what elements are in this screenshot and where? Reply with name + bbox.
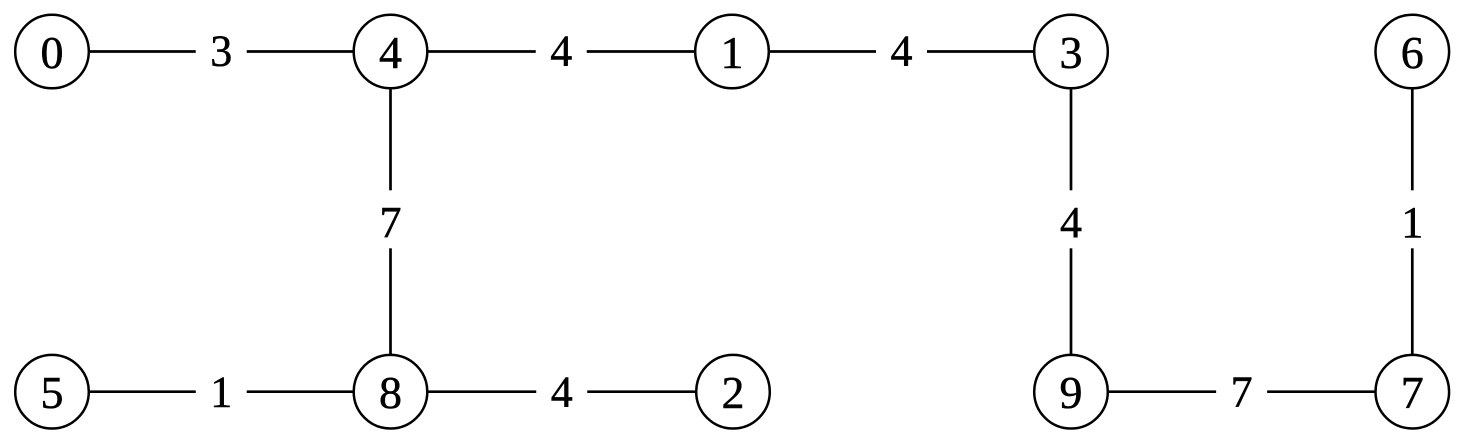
node 7 bbox=[1376, 355, 1450, 429]
svg-text:7: 7 bbox=[1231, 368, 1253, 417]
svg-text:3: 3 bbox=[210, 27, 232, 76]
node 6 bbox=[1376, 15, 1450, 89]
svg-text:3: 3 bbox=[1060, 27, 1083, 78]
svg-text:8: 8 bbox=[379, 367, 402, 418]
edge label 7 (9-7) bbox=[1216, 368, 1267, 417]
svg-text:2: 2 bbox=[722, 367, 745, 418]
wire edge 4-8 bbox=[389, 52, 392, 392]
wire edge 5-8 bbox=[52, 390, 391, 393]
node 3 bbox=[1034, 15, 1108, 89]
edge label 4 (4-1) bbox=[536, 27, 587, 76]
svg-text:0: 0 bbox=[41, 27, 64, 78]
node 2 bbox=[696, 355, 770, 429]
svg-text:9: 9 bbox=[1060, 367, 1083, 418]
node 0 bbox=[15, 15, 89, 89]
svg-text:1: 1 bbox=[1401, 198, 1423, 247]
edge label 7 (4-8) bbox=[369, 190, 413, 248]
wire edge 6-7 bbox=[1411, 52, 1414, 392]
svg-text:4: 4 bbox=[379, 27, 402, 78]
wire edge 3-9 bbox=[1070, 52, 1073, 392]
node 8 bbox=[354, 355, 428, 429]
node 4 bbox=[354, 15, 428, 89]
edge label 3 (0-4) bbox=[196, 27, 247, 76]
svg-text:6: 6 bbox=[1401, 27, 1424, 78]
wire edge 8-2 bbox=[391, 390, 734, 393]
svg-text:5: 5 bbox=[41, 367, 64, 418]
svg-text:7: 7 bbox=[1401, 367, 1424, 418]
svg-text:4: 4 bbox=[891, 27, 913, 76]
svg-text:1: 1 bbox=[210, 368, 232, 417]
node 9 bbox=[1034, 355, 1108, 429]
svg-text:4: 4 bbox=[550, 27, 572, 76]
svg-text:4: 4 bbox=[1060, 198, 1082, 247]
edge label 1 (6-7) bbox=[1390, 190, 1434, 248]
svg-text:7: 7 bbox=[380, 198, 402, 247]
wire edge 0-4 bbox=[52, 50, 391, 53]
edge label 1 (5-8) bbox=[196, 368, 247, 417]
edge label 4 (1-3) bbox=[876, 27, 927, 76]
wire edge 1-3 bbox=[732, 50, 1071, 53]
node 5 bbox=[15, 355, 89, 429]
wire edge 9-7 bbox=[1071, 390, 1412, 393]
node 1 bbox=[695, 15, 769, 89]
wire edge 4-1 bbox=[391, 50, 733, 53]
svg-text:1: 1 bbox=[721, 27, 744, 78]
edge label 4 (3-9) bbox=[1049, 190, 1093, 248]
edge label 4 (8-2) bbox=[536, 368, 587, 417]
svg-text:4: 4 bbox=[551, 368, 573, 417]
